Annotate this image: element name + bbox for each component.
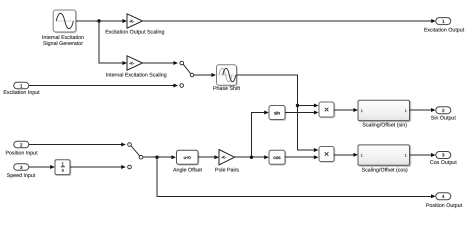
wire: cos to product 2 bottom input [285, 156, 314, 158]
wire: gain 2 to switch 1 top input [143, 62, 174, 64]
wire: junction to product 1 top input [298, 105, 315, 107]
switch 2: position source selector [128, 143, 143, 169]
inport 3: Speed Input [7, 164, 36, 179]
integrator 1/s [55, 160, 71, 176]
outport 2: Sin Output [431, 107, 457, 122]
wire: switch 1 output to Phase Shift [194, 74, 212, 76]
node: junction angle to sin [250, 156, 253, 159]
wire: signal generator output to gain 1 [76, 19, 127, 23]
wire: Position Input to switch 2 top input [29, 144, 122, 146]
wire: branch down to gain 2 [99, 21, 123, 63]
svg-text:-K-: -K- [221, 156, 227, 160]
node: junction on excitation vertical [296, 104, 299, 107]
inport 1: Excitation Input [3, 82, 40, 96]
svg-text:Cos Output: Cos Output [430, 160, 457, 166]
node: branch junction on excitation wire [97, 19, 100, 22]
wire: sin to product 1 bottom input [285, 112, 314, 114]
svg-text:Scaling/Offset (cos): Scaling/Offset (cos) [362, 168, 408, 174]
svg-text:Pole Pairs: Pole Pairs [215, 168, 239, 174]
svg-text:Excitation Output: Excitation Output [424, 27, 465, 33]
svg-text:sin: sin [274, 110, 280, 115]
signal generator block: Internal Excitation Signal Generator [42, 10, 84, 47]
svg-text:Excitation Input: Excitation Input [3, 90, 40, 96]
wire: Speed Input to integrator [29, 166, 51, 168]
wire: switch 2 output to Angle Offset [143, 156, 172, 158]
wire: passthrough down and right to Position Output [157, 157, 431, 196]
svg-text:-K-: -K- [129, 61, 135, 65]
svg-text:Signal Generator: Signal Generator [43, 41, 83, 47]
product 1 (sin path) [319, 102, 335, 118]
svg-text:cos: cos [273, 155, 281, 160]
svg-text:Position Output: Position Output [426, 203, 463, 209]
wire: Phase Shift output to product inputs [237, 75, 315, 150]
inport 2: Position Input [5, 141, 38, 156]
wire: Excitation Input to switch 1 bottom input [29, 85, 174, 87]
outport 1: Excitation Output [424, 18, 465, 34]
trig block: cos [269, 150, 286, 165]
svg-text:Angle Offset: Angle Offset [173, 168, 203, 174]
switch 1: excitation source selector [180, 61, 194, 87]
wire: Angle Offset to Pole Pairs [198, 156, 215, 158]
gain: Pole Pairs [215, 150, 239, 174]
subsystem: Phase Shift [213, 65, 241, 92]
wire: product 1 to Scaling/Offset (sin) [334, 109, 354, 111]
svg-text:Sin Output: Sin Output [431, 115, 457, 121]
wire: junction up to sin block [252, 113, 265, 158]
svg-text:u+0: u+0 [184, 155, 192, 160]
svg-text:1: 1 [405, 109, 407, 113]
subsystem: Scaling/Offset (cos) [358, 145, 411, 174]
svg-text:Speed Input: Speed Input [7, 173, 36, 179]
svg-text:Excitation Output Scaling: Excitation Output Scaling [105, 30, 164, 36]
trig block: sin [269, 106, 286, 121]
svg-text:Scaling/Offset (sin): Scaling/Offset (sin) [362, 123, 407, 129]
svg-text:1: 1 [361, 154, 363, 158]
gain: Excitation Output Scaling [105, 14, 164, 36]
wire: Pole Pairs to cos block [235, 156, 265, 158]
svg-text:Phase Shift: Phase Shift [213, 86, 241, 92]
bias block: Angle Offset [173, 150, 203, 173]
svg-text:Internal Excitation Scaling: Internal Excitation Scaling [106, 73, 167, 79]
node: junction to position passthrough [155, 156, 158, 159]
svg-text:-K-: -K- [129, 19, 135, 23]
gain: Internal Excitation Scaling [106, 56, 167, 79]
wire: product 2 to Scaling/Offset (cos) [334, 154, 354, 156]
wire: Scaling/Offset (cos) to Cos Output [410, 154, 432, 156]
svg-text:1: 1 [405, 154, 407, 158]
wire: Scaling/Offset (sin) to Sin Output [410, 109, 432, 111]
outport 4: Position Output [426, 193, 463, 209]
wire: gain 1 to Excitation Output port [143, 20, 432, 22]
wire: integrator to switch 2 bottom input [70, 166, 121, 168]
svg-text:Position Input: Position Input [5, 150, 38, 156]
product 2 (cos path) [319, 147, 335, 163]
outport 3: Cos Output [430, 152, 457, 167]
subsystem: Scaling/Offset (sin) [358, 100, 411, 128]
svg-text:1: 1 [361, 109, 363, 113]
